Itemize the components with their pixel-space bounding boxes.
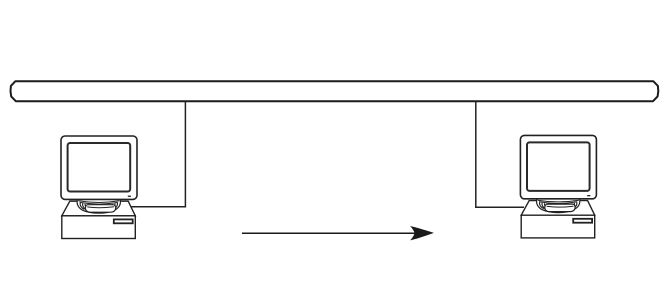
PC1 floppy slot [114,219,133,223]
PC1 stand bowl [77,200,120,214]
PC1 stand rim arc 2 [80,202,118,204]
PC2 stand bowl [537,199,580,213]
PC1 case top face [62,201,136,216]
PC2 stand right ribs [568,202,577,209]
PC2 screen [527,142,590,191]
PC1 stand pill inner line [87,206,114,209]
PC2 stand front pill [545,204,575,212]
PC1 stand right ribs [109,203,118,210]
PC2 monitor bezel [520,135,596,198]
PC2 power LED [587,195,590,196]
PC2 floppy slot [573,219,592,223]
PC2 stand left ribs [539,202,548,209]
wire drop to PC1 [132,101,186,207]
PC1 monitor bezel [61,136,137,199]
PC1 power LED [128,196,131,197]
PC1 stand rim arc 1 [78,201,119,203]
computer PC1 [61,136,137,239]
PC1 screen [68,143,131,192]
PC2 case top face [521,201,595,216]
computer PC2 [520,135,596,238]
PC1 stand front pill [85,205,115,213]
PC2 case front face [521,215,595,238]
PC2 stand rim arc 1 [538,200,579,202]
PC2 stand rim arc 2 [539,202,577,204]
bus (ethernet segment) [11,81,659,101]
PC1 stand left ribs [80,203,89,210]
wire drop to PC2 [476,101,524,208]
PC1 case front face [62,216,136,239]
PC2 stand pill inner line [547,205,574,208]
arrow head [410,226,434,240]
arrow shaft [242,232,426,234]
